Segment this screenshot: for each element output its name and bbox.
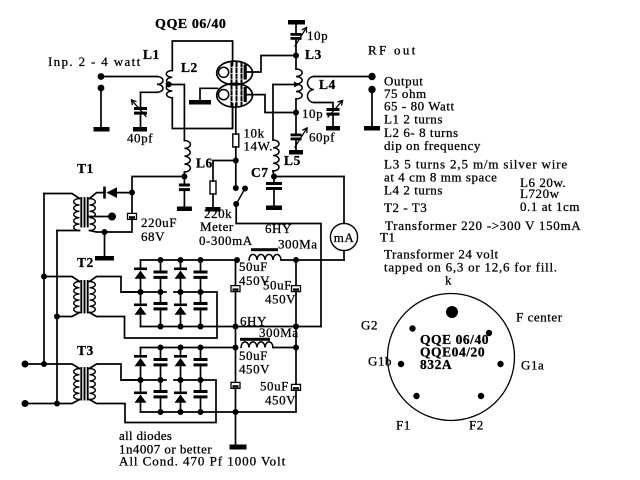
svg-text:0-300mA: 0-300mA (199, 233, 253, 248)
svg-text:All Cond. 470 Pf 1000 Volt: All Cond. 470 Pf 1000 Volt (119, 454, 286, 469)
svg-text:F2: F2 (469, 418, 484, 433)
svg-text:300Ma: 300Ma (259, 325, 299, 340)
svg-text:T3: T3 (77, 343, 94, 358)
svg-text:450V: 450V (239, 362, 270, 377)
svg-text:0.1 at 1cm: 0.1 at 1cm (520, 199, 580, 214)
svg-text:tapped on 6,3 or 12,6 for fill: tapped on 6,3 or 12,6 for fill. (384, 260, 558, 275)
svg-text:C7: C7 (251, 165, 269, 180)
svg-text:832A: 832A (420, 357, 452, 372)
svg-text:L6: L6 (196, 156, 213, 171)
svg-text:RF out: RF out (368, 43, 418, 58)
svg-text:G2: G2 (361, 318, 378, 333)
svg-text:F center: F center (516, 310, 563, 325)
svg-text:50uF: 50uF (260, 379, 289, 394)
svg-text:50uF: 50uF (239, 259, 268, 274)
svg-text:dip on frequency: dip on frequency (384, 138, 481, 153)
svg-text:220uF: 220uF (141, 215, 177, 230)
svg-text:6HY: 6HY (265, 221, 292, 236)
svg-text:450V: 450V (265, 292, 296, 307)
svg-text:G1a: G1a (521, 358, 544, 373)
svg-text:10p: 10p (307, 28, 328, 43)
svg-text:k: k (445, 273, 452, 288)
svg-text:G1b: G1b (368, 354, 392, 369)
svg-text:Transformer 220 ->300 V 150mA: Transformer 220 ->300 V 150mA (385, 218, 581, 233)
svg-text:T2: T2 (77, 255, 94, 270)
svg-text:300Ma: 300Ma (278, 237, 318, 252)
svg-text:Meter: Meter (200, 219, 234, 234)
svg-text:L4: L4 (319, 77, 336, 92)
svg-text:T1: T1 (77, 161, 94, 176)
svg-text:50uF: 50uF (263, 278, 292, 293)
svg-text:F1: F1 (396, 418, 411, 433)
svg-text:L4 2 turns: L4 2 turns (384, 183, 443, 198)
svg-text:60pf: 60pf (309, 130, 335, 145)
svg-text:450V: 450V (265, 393, 296, 408)
svg-text:14W.: 14W. (244, 139, 274, 154)
svg-text:L3: L3 (305, 47, 322, 62)
svg-text:Inp. 2 - 4 watt: Inp. 2 - 4 watt (48, 54, 142, 69)
svg-text:mA: mA (334, 230, 355, 245)
svg-text:L2: L2 (181, 60, 198, 75)
svg-text:40pf: 40pf (127, 131, 153, 146)
svg-text:T2 - T3: T2 - T3 (384, 200, 427, 215)
svg-text:10p: 10p (302, 106, 323, 121)
svg-text:L5: L5 (284, 153, 301, 168)
svg-text:QQE 06/40: QQE 06/40 (155, 17, 226, 32)
svg-text:68V: 68V (141, 229, 165, 244)
svg-text:L1: L1 (143, 47, 160, 62)
svg-text:T1: T1 (380, 230, 396, 245)
